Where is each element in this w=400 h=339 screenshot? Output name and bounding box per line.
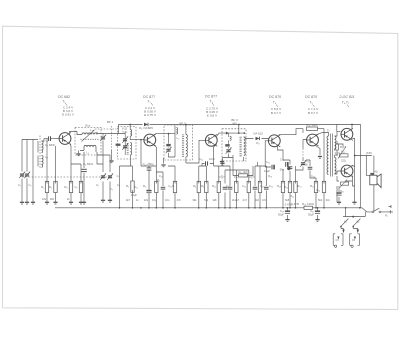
svg-text:R₈: R₈ [193,184,196,188]
svg-text:Ch: Ch [352,239,356,242]
svg-text:T₄: T₄ [273,101,277,105]
svg-text:OC 870: OC 870 [269,95,281,99]
svg-text:k₁ k₂: k₁ k₂ [123,131,128,134]
svg-text:10μF: 10μF [131,193,137,197]
svg-text:12k: 12k [42,197,47,201]
svg-text:C₁₂ 250p: C₁₂ 250p [143,162,154,166]
svg-text:D₂: D₂ [256,141,259,145]
svg-text:OC 877: OC 877 [205,95,217,99]
svg-text:C₁₅: C₁₅ [168,184,172,188]
svg-text:C₁₆: C₁₆ [199,157,203,161]
svg-text:L₁: L₁ [46,139,49,143]
svg-text:C₂₈: C₂₈ [316,188,320,192]
svg-text:E 0,75 V: E 0,75 V [144,113,157,117]
svg-text:R₉: R₉ [201,184,204,188]
svg-text:(15V: (15V [366,151,372,155]
svg-text:R₁₆: R₁₆ [249,175,253,179]
svg-text:N₂: N₂ [357,220,360,224]
svg-text:P₁: P₁ [385,214,388,218]
svg-text:R₇: R₇ [157,178,160,182]
svg-text:R₂₂: R₂₂ [290,194,294,198]
svg-text:Tr: Tr [327,129,330,133]
svg-text:5k: 5k [305,163,308,167]
svg-text:3k9: 3k9 [50,197,55,201]
svg-text:T₁: T₁ [62,100,65,104]
svg-text:C₉ 68nF: C₉ 68nF [83,162,94,166]
svg-text:R₁₉: R₁₉ [277,184,281,188]
svg-text:C₂₃: C₂₃ [266,160,270,164]
svg-text:R₂₇: R₂₇ [310,184,314,188]
svg-text:1n: 1n [136,198,139,202]
svg-text:L₂: L₂ [46,155,50,159]
svg-text:R₃₀: R₃₀ [341,150,345,154]
svg-text:L₄: L₄ [87,151,90,155]
svg-text:R₂₀: R₂₀ [284,185,288,189]
svg-text:R₁: R₁ [41,185,44,189]
svg-text:OA 615: OA 615 [253,132,263,136]
svg-text:2k7: 2k7 [235,198,240,202]
svg-text:4Ω: 4Ω [375,171,378,174]
svg-text:0,47M: 0,47M [292,202,300,206]
svg-text:R₂₃: R₂₃ [298,184,302,188]
svg-text:50μF: 50μF [278,213,284,217]
svg-text:R₁₂: R₁₂ [212,184,216,188]
svg-text:C₁₈: C₁₈ [219,175,223,179]
svg-text:22k: 22k [144,198,149,202]
svg-text:E 0,61 V: E 0,61 V [62,113,75,117]
svg-text:B 0,7 V: B 0,7 V [308,111,319,115]
svg-text:C₂: C₂ [29,183,32,187]
svg-text:R₁₇: R₁₇ [260,184,264,188]
svg-text:E 0,8 V: E 0,8 V [207,114,218,118]
svg-text:C₇: C₇ [117,174,120,178]
svg-text:L₆: L₆ [177,136,180,140]
svg-text:R₆: R₆ [143,184,146,188]
svg-text:BF 2: BF 2 [180,121,186,125]
svg-text:10nF: 10nF [209,157,215,161]
svg-text:R₃: R₃ [64,185,67,189]
svg-text:47k: 47k [177,198,182,202]
svg-text:C₂₅: C₂₅ [280,158,284,162]
svg-text:Osz.: Osz. [85,124,91,128]
svg-text:2-OC 811: 2-OC 811 [338,95,354,99]
svg-text:C₂₂: C₂₂ [242,184,246,188]
svg-text:L₃: L₃ [90,128,93,132]
svg-text:BF 1: BF 1 [107,120,114,124]
svg-text:C₁: C₁ [96,183,99,187]
svg-text:R₁₈: R₁₈ [268,174,272,178]
svg-text:2k2: 2k2 [255,198,260,202]
svg-text:OC 870: OC 870 [305,95,317,99]
svg-text:22Ω: 22Ω [341,159,346,163]
svg-text:D₁ OA605: D₁ OA605 [139,126,153,130]
svg-text:C₄: C₄ [117,183,121,187]
svg-text:C₁₃: C₁₃ [159,174,163,178]
svg-text:OC 682: OC 682 [58,95,70,99]
svg-text:T₂: T₂ [147,100,151,104]
svg-text:30μ: 30μ [280,168,285,172]
svg-text:4n7: 4n7 [243,198,248,202]
svg-text:C₁: C₁ [18,183,21,187]
svg-text:10n: 10n [165,198,170,202]
svg-text:BF 3: BF 3 [231,118,238,122]
svg-text:N₁: N₁ [344,220,347,224]
svg-text:R₂: R₂ [49,185,52,189]
svg-text:C₃₀: C₃₀ [280,209,284,213]
svg-text:1k: 1k [67,197,70,201]
svg-text:50μF: 50μF [308,213,314,217]
svg-text:T₅: T₅ [309,101,313,105]
svg-text:6k8: 6k8 [285,198,290,202]
svg-text:C₁₁: C₁₁ [134,185,138,189]
svg-text:465: 465 [232,121,237,125]
svg-text:R₂₉: R₂₉ [340,145,344,149]
svg-text:T₆,T₇: T₆,T₇ [342,101,349,105]
svg-text:10μF: 10μF [264,169,270,173]
svg-text:Ch: Ch [336,239,340,242]
svg-text:T₃: T₃ [209,100,213,104]
svg-text:5k6: 5k6 [318,198,323,202]
svg-text:C₆: C₆ [74,185,77,189]
svg-text:R₅: R₅ [126,184,129,188]
svg-text:R₃₁ 120Ω: R₃₁ 120Ω [302,202,314,206]
svg-text:33n: 33n [326,198,331,202]
svg-text:R₂₆ 38k5: R₂₆ 38k5 [306,123,318,127]
svg-text:1k8: 1k8 [212,198,217,202]
svg-text:39k: 39k [192,198,197,202]
svg-text:R₁₅ 3k9: R₁₅ 3k9 [238,170,248,174]
svg-text:C₂₄: C₂₄ [269,184,273,188]
svg-text:C₂ 68nF: C₂ 68nF [45,143,56,147]
svg-text:OC 877: OC 877 [143,95,155,99]
svg-text:B 0,7 V: B 0,7 V [271,111,282,115]
svg-text:R₋: R₋ [172,184,176,188]
svg-text:C₂₆: C₂₆ [311,174,315,178]
svg-text:R₂₁: R₂₁ [305,159,309,163]
svg-text:4k7: 4k7 [126,198,131,202]
svg-text:C₅: C₅ [110,187,113,191]
